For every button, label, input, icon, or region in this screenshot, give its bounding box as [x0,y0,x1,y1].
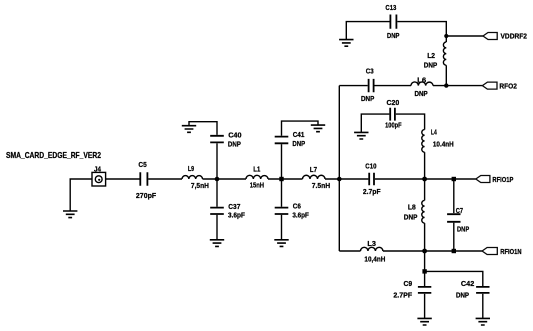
wire riser top to C3 [339,85,367,87]
svg-text:100pF: 100pF [385,121,402,130]
svg-text:C9: C9 [404,279,413,288]
node junction at C40/C37 branch [215,177,220,182]
capacitor C20 100pF [385,98,402,130]
ground (above C41) [311,125,325,132]
svg-text:DNP: DNP [387,31,399,40]
node junction (square) at 424.6,271.4 [422,269,426,273]
svg-text:C5: C5 [138,160,146,169]
capacitor C7 DNP [447,206,469,234]
svg-text:3.6pF: 3.6pF [228,211,245,220]
wire C20 left to ground [361,114,389,132]
inductor L6 DNP [411,75,433,98]
wire L6 to RFO2 port [433,85,482,87]
svg-text:DNP: DNP [292,139,305,148]
wire C5 to L9 [148,178,182,180]
node junction at 446.3,85.6 [444,83,448,87]
svg-text:VDDRF2: VDDRF2 [501,32,528,41]
wire C3 to L6 [375,85,412,87]
wire C10 to RFIO1P port [375,178,476,180]
inductor L9 7,5nH [182,164,209,190]
wire L3 to RFIO1N port [383,250,482,252]
svg-text:DNP: DNP [228,140,241,149]
ground (below C6) [274,240,288,247]
wire node to VDDRF2 port [446,35,483,37]
svg-text:L7: L7 [310,165,317,174]
svg-text:7,5nH: 7,5nH [191,181,209,190]
capacitor C13 DNP [385,3,399,40]
svg-text:10.4nH: 10.4nH [433,139,454,148]
svg-text:270pF: 270pF [136,191,157,200]
inductor L1 15nH [246,165,268,190]
svg-text:15nH: 15nH [250,181,264,190]
wire C7 bottom to bottom row [453,223,455,251]
node junction (square) at 453.8,251 [452,249,456,253]
ground (below C20 left) [354,132,368,139]
svg-text:7.5nH: 7.5nH [312,181,330,190]
wire L9 to L1 [203,178,247,180]
svg-text:J4: J4 [94,164,102,173]
wire node up to C40 [216,143,218,179]
ground (below C42) [476,318,490,325]
svg-text:2.7pF: 2.7pF [363,187,381,196]
svg-text:L1: L1 [253,165,260,174]
svg-text:C7: C7 [456,206,463,215]
inductor L8 DNP [404,200,425,223]
inductor L7 7.5nH [303,165,331,190]
wire main node down to L8 [424,179,426,200]
svg-text:L3: L3 [367,239,376,248]
wire square node down to C7 [453,179,455,213]
inductor L3 10,4nH [361,239,386,263]
wire vertical riser x=339 from C3 row to bottom row [338,86,340,251]
ground (below C37) [210,240,224,247]
capacitor C3 DNP [361,67,374,104]
wire C37 to ground [216,215,218,240]
svg-text:SMA_CARD_EDGE_RF_VER2: SMA_CARD_EDGE_RF_VER2 [6,150,101,160]
svg-text:RFIO1P: RFIO1P [492,175,513,184]
wire bottom row left segment [339,250,360,252]
port RFIO1N [482,247,521,256]
svg-text:RFIO1N: RFIO1N [500,247,521,256]
svg-text:RFO2: RFO2 [499,81,517,90]
wire J4 to C5 [106,178,140,180]
wire L7 to C10 [325,178,368,180]
svg-text:L8: L8 [408,202,416,211]
svg-text:L6: L6 [417,75,426,84]
wire C40 top to ground [189,122,217,135]
wire node up to C41 [281,144,283,179]
svg-text:C10: C10 [365,162,376,171]
capacitor C10 2.7pF [363,162,381,196]
svg-text:DNP: DNP [457,224,469,233]
wire top row left of C13 [346,22,389,40]
port VDDRF2 [483,32,527,41]
node junction at x=339 main row [337,177,342,182]
inductor L2 DNP [424,42,447,69]
connector J4 [92,164,106,186]
wire node down to C6 [281,179,283,207]
svg-text:DNP: DNP [404,213,418,222]
node junction (square) at 453.8,179 [452,177,456,181]
capacitor C9 2.7PF [393,279,431,300]
svg-text:C3: C3 [366,67,374,76]
wire C6 to ground [281,215,283,240]
capacitor C6 3.6pF [275,202,310,220]
svg-text:L2: L2 [427,51,435,60]
node junction at 446.3,36 [444,34,448,38]
svg-text:C40: C40 [228,130,241,139]
wire L1 to L7 [268,178,303,180]
wire node down to C37 [216,179,218,207]
wire branch to C42 [425,271,483,286]
svg-text:C20: C20 [387,98,400,107]
svg-text:C41: C41 [293,130,305,139]
ground (below C9) [417,318,431,325]
capacitor C42 DNP [456,279,490,300]
wire L8 bottom to bottom row [424,223,426,251]
inductor L4 10.4nH [422,128,454,153]
svg-text:2.7PF: 2.7PF [393,290,412,299]
svg-text:L4: L4 [431,128,437,137]
svg-text:C42: C42 [461,279,474,288]
svg-text:L9: L9 [188,164,194,173]
wire: J4 left pin to ground stub [70,179,92,211]
svg-text:DNP: DNP [415,89,428,98]
node junction at 424.6,251 [422,249,427,254]
wire C42 to ground [482,294,484,318]
ground (above C40) [182,126,196,133]
node junction at 424.6,179 [422,177,427,182]
svg-text:DNP: DNP [424,60,437,69]
svg-text:C13: C13 [385,3,396,12]
wire C41 top to ground [282,121,319,136]
wire L2 bottom to RFO2 row [445,65,447,85]
capacitor C40 DNP [210,130,241,148]
svg-text:DNP: DNP [456,290,469,299]
wire C9 to ground [424,294,426,318]
node junction (square) at C41/C6 branch [279,177,283,181]
wire C13 right to L2 top [397,22,446,42]
svg-text:C6: C6 [293,202,301,211]
ground (below C13 left) [339,40,353,47]
capacitor C41 DNP [275,130,305,148]
capacitor C5 270pF [136,160,157,200]
svg-text:DNP: DNP [361,94,374,103]
svg-text:3.6pF: 3.6pF [292,211,309,220]
port RFO2 [482,81,517,90]
ground (left of J4) [63,211,77,218]
svg-text:10,4nH: 10,4nH [364,254,385,263]
wire L4 bottom to main row [424,152,426,179]
port RFIO1P [476,175,514,184]
capacitor C37 3.6pF [210,202,245,220]
wire bottom node down to C9 [424,251,426,286]
wire C20 right to L4 top [396,114,425,130]
